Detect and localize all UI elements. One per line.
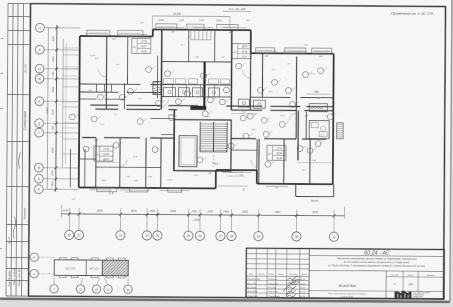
svg-text:2.44: 2.44 [250,128,256,131]
svg-text:5417-1 к 10: 5417-1 к 10 [103,159,114,162]
svg-text:2.56: 2.56 [125,176,131,178]
svg-text:Разработал: Разработал [247,279,261,281]
svg-text:1400: 1400 [149,209,155,213]
svg-text:62.9: 62.9 [242,57,247,59]
svg-text:Взам. инв. №: Взам. инв. № [17,269,21,286]
svg-text:2.43: 2.43 [194,56,200,59]
svg-text:АС-17б: АС-17б [24,64,28,74]
svg-text:ОК7Б: ОК7Б [125,192,131,194]
svg-text:3000: 3000 [170,209,176,213]
svg-text:15.07: 15.07 [100,124,106,126]
svg-text:20: 20 [94,287,99,291]
svg-text:Лист: Лист [407,275,414,277]
svg-text:5100: 5100 [52,109,55,115]
svg-text:Н. контр.: Н. контр. [247,287,257,289]
svg-text:5100: 5100 [52,86,55,92]
svg-text:№док.: №док. [278,273,285,276]
svg-text:ЛВ5: ЛВ5 [207,173,213,175]
svg-text:22: 22 [118,234,123,238]
svg-text:30.99: 30.99 [90,55,96,57]
svg-text:З т. АС-16б: З т. АС-16б [229,7,246,11]
svg-text:1.81: 1.81 [221,57,225,59]
svg-text:Лист: Лист [267,274,274,276]
svg-text:30: 30 [295,235,299,239]
svg-text:Ковалёва: Ковалёва [269,291,279,293]
svg-text:2-2: 2-2 [267,153,272,156]
svg-text:АС-17б: АС-17б [65,266,76,270]
svg-text:17.89: 17.89 [103,149,109,151]
svg-text:64.08: 64.08 [103,153,109,156]
svg-text:ОКП: ОКП [171,32,176,34]
svg-text:АС-17г: АС-17г [89,266,100,270]
svg-text:44.36: 44.36 [141,50,147,53]
svg-text:21000: 21000 [192,218,201,222]
svg-text:Изм.: Изм. [249,274,254,276]
svg-text:ОКП: ОКП [112,39,117,41]
svg-text:37.09: 37.09 [141,42,147,44]
svg-text:Примечание см. л. АС-17б: Примечание см. л. АС-17б [391,12,433,16]
svg-text:ОКП: ОКП [264,56,269,58]
svg-text:АС-17: АС-17 [7,236,11,245]
svg-text:Кол.уч: Кол.уч [259,274,266,276]
svg-text:Г: Г [38,131,40,135]
svg-text:26.89: 26.89 [275,154,282,156]
svg-text:24: 24 [155,234,160,238]
svg-text:27: 27 [218,234,223,238]
svg-text:2400: 2400 [206,209,213,213]
svg-text:ОКП: ОКП [102,180,107,182]
svg-text:Выход: Выход [311,199,319,202]
svg-text:Стадия: Стадия [391,273,400,276]
svg-text:2.17: 2.17 [319,135,325,137]
svg-text:3000: 3000 [242,210,248,214]
svg-text:Согласовано: Согласовано [23,111,27,131]
svg-text:5700: 5700 [158,19,164,22]
svg-text:4500: 4500 [52,35,55,41]
svg-text:25.3: 25.3 [271,69,277,71]
svg-text:Чл.с. НС: Чл.с. НС [247,283,256,285]
svg-text:76.08: 76.08 [242,52,248,54]
svg-text:38.4 Г: 38.4 Г [214,163,221,166]
svg-text:Подп. и дата: Подп. и дата [12,268,16,285]
svg-text:Рыбаченко: Рыбаченко [268,296,280,298]
svg-text:Рыбкин: Рыбкин [269,287,278,289]
svg-text:900: 900 [52,71,55,76]
svg-text:А: А [37,187,40,191]
svg-text:Подпись: Подпись [289,273,297,276]
svg-text:6300: 6300 [51,147,54,153]
svg-text:1010: 1010 [63,208,69,212]
svg-text:900: 900 [52,125,55,130]
svg-text:3600: 3600 [97,209,103,213]
svg-text:21: 21 [76,233,81,237]
svg-text:3000: 3000 [312,210,318,214]
svg-text:1300: 1300 [52,56,55,62]
svg-text:31: 31 [126,288,130,292]
svg-text:2-2: 2-2 [132,46,137,49]
svg-text:2-2: 2-2 [232,51,237,54]
svg-text:21: 21 [105,287,110,291]
svg-text:Николаев: Николаев [23,207,27,219]
svg-text:МУ1: МУ1 [206,116,210,118]
svg-text:ОКП: ОКП [229,32,234,34]
svg-text:Маркина: Маркина [269,279,279,281]
svg-text:3.00: 3.00 [179,19,184,22]
svg-text:17.63: 17.63 [276,149,282,151]
svg-text:Проёмный м/в: Проёмный м/в [229,171,245,174]
svg-text:по цепи 10 - 3 эт.: по цепи 10 - 3 эт. [227,175,246,177]
svg-text:Жилой дом: Жилой дом [337,284,356,288]
svg-text:1800: 1800 [51,181,54,187]
svg-text:29: 29 [256,235,261,239]
svg-text:Инв. № подл.: Инв. № подл. [7,270,11,287]
svg-text:31: 31 [332,235,336,239]
svg-text:ОКП: ОКП [318,56,323,58]
svg-text:3000: 3000 [131,209,137,213]
svg-text:3.00: 3.00 [199,19,204,22]
svg-text:1400: 1400 [191,209,197,213]
svg-text:26: 26 [197,234,202,238]
svg-text:1400: 1400 [223,210,229,214]
svg-text:Утвердил: Утвердил [247,295,258,298]
svg-text:Листов: Листов [426,275,436,277]
svg-text:Проверил: Проверил [247,291,258,293]
svg-text:5200: 5200 [216,19,222,22]
svg-text:11: 11 [79,287,82,291]
svg-text:ОКП: ОКП [134,180,139,182]
svg-text:198: 198 [408,282,413,286]
svg-text:ОК7Б: ОК7Б [167,180,173,182]
svg-text:42.07: 42.07 [141,46,147,49]
svg-text:в осях 21-31: в осях 21-31 [341,296,354,298]
svg-text:Б: Б [243,188,245,192]
svg-text:План инженерных разделов 3 сек: План инженерных разделов 3 секции [328,292,367,295]
svg-text:22.8: 22.8 [267,91,273,93]
svg-text:25: 25 [186,234,191,238]
svg-text:78.68: 78.68 [276,158,282,160]
svg-text:2200: 2200 [51,170,54,177]
svg-text:26.000: 26.000 [172,11,182,15]
svg-text:Дата: Дата [300,274,307,276]
svg-text:Б: Б [38,177,40,181]
svg-text:2-2: 2-2 [94,154,99,157]
svg-text:23: 23 [144,234,149,238]
svg-text:Надстройка мансардными жилыми: Надстройка мансардными жилыми домами со-… [337,257,418,261]
svg-text:на 3-м этаже в жилом районе, о: на 3-м этаже в жилом районе, ограниченно… [344,261,411,264]
svg-text:28: 28 [229,234,234,238]
svg-text:Смирнов: Смирнов [269,283,279,285]
svg-text:20.8: 20.8 [242,45,248,47]
svg-text:3600: 3600 [275,210,281,214]
svg-text:20: 20 [66,233,71,237]
